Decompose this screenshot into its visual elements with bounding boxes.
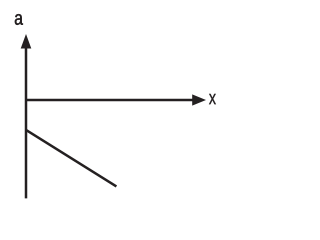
axis label x (209, 94, 216, 104)
horizontal axis arrowhead (192, 94, 206, 105)
sloped line a(x) (26, 130, 116, 187)
horizontal axis x (wire) (26, 99, 194, 102)
vertical axis arrowhead (21, 34, 32, 49)
axis label a (15, 14, 23, 25)
vertical axis a (wire) (25, 46, 28, 198)
